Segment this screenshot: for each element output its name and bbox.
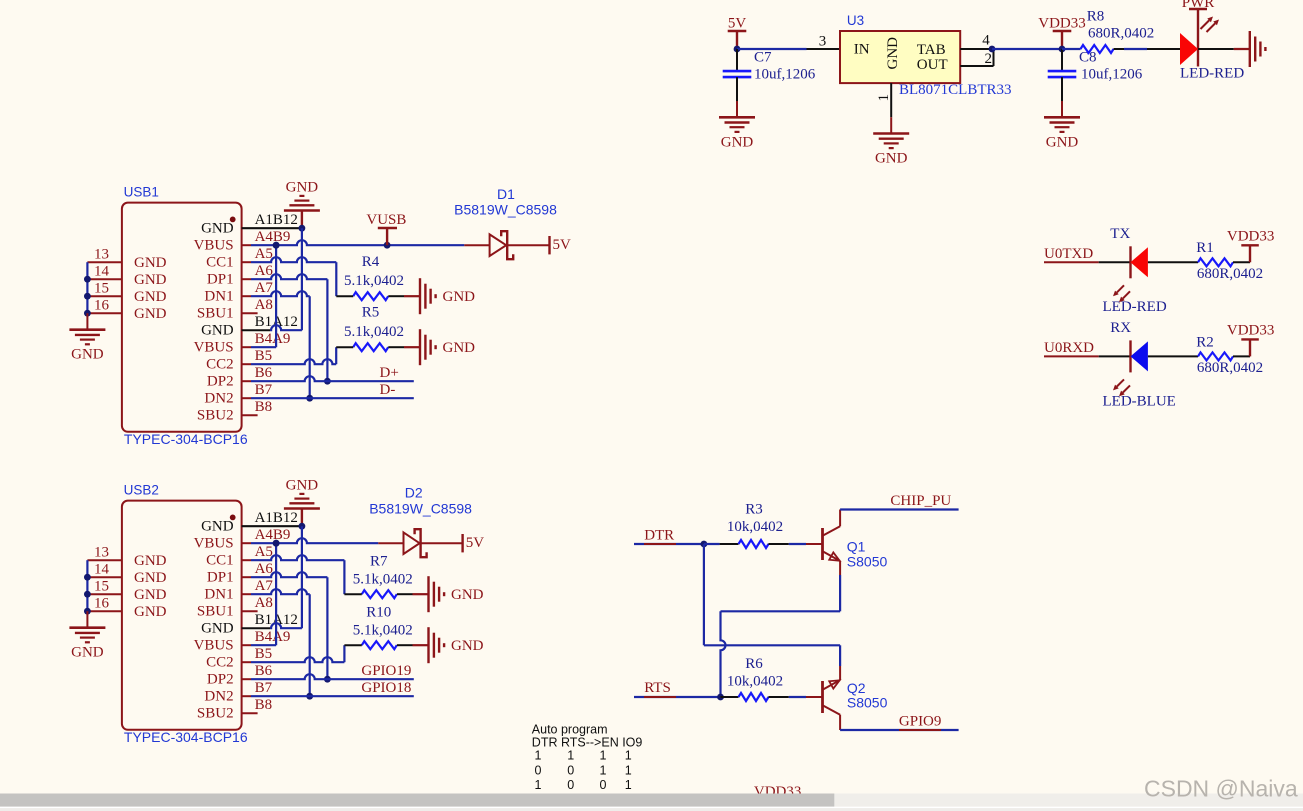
svg-text:10k,0402: 10k,0402 (727, 673, 783, 689)
svg-text:IN: IN (854, 41, 870, 57)
svg-text:A8: A8 (255, 595, 273, 611)
svg-text:Q1: Q1 (847, 539, 866, 555)
svg-text:GND: GND (286, 478, 319, 494)
svg-text:1: 1 (600, 749, 607, 763)
svg-text:GND: GND (451, 638, 484, 654)
svg-text:1: 1 (625, 764, 632, 778)
svg-text:GND: GND (721, 134, 754, 150)
svg-text:1: 1 (876, 94, 892, 102)
svg-text:5V: 5V (728, 16, 747, 32)
svg-text:GND: GND (201, 221, 234, 237)
svg-text:LED-RED: LED-RED (1103, 299, 1167, 315)
svg-text:B4A9: B4A9 (255, 331, 291, 347)
svg-text:A1B12: A1B12 (255, 510, 298, 526)
svg-text:B7: B7 (255, 382, 273, 398)
svg-text:Auto program: Auto program (532, 722, 608, 736)
svg-text:0: 0 (567, 764, 574, 778)
svg-text:DP2: DP2 (207, 672, 234, 688)
svg-text:1: 1 (625, 778, 632, 792)
svg-text:10uf,1206: 10uf,1206 (754, 67, 816, 83)
svg-text:B4A9: B4A9 (255, 629, 291, 645)
svg-text:A5: A5 (255, 544, 273, 560)
svg-text:GND: GND (451, 587, 484, 603)
svg-text:GND: GND (134, 587, 167, 603)
svg-text:0: 0 (600, 778, 607, 792)
svg-text:B8: B8 (255, 399, 273, 415)
svg-text:D1: D1 (497, 186, 515, 202)
svg-text:680R,0402: 680R,0402 (1197, 360, 1263, 376)
svg-text:SBU1: SBU1 (197, 604, 234, 620)
svg-text:15: 15 (94, 579, 109, 595)
svg-text:A8: A8 (255, 297, 273, 313)
svg-text:SBU1: SBU1 (197, 306, 234, 322)
svg-text:DTR: DTR (644, 527, 674, 543)
svg-text:GND: GND (134, 289, 167, 305)
svg-text:GPIO9: GPIO9 (899, 713, 942, 729)
svg-text:GND: GND (443, 340, 476, 356)
svg-text:U0RXD: U0RXD (1044, 340, 1094, 356)
svg-text:B6: B6 (255, 663, 273, 679)
svg-text:A1B12: A1B12 (255, 212, 298, 228)
svg-text:DN1: DN1 (204, 289, 233, 305)
svg-text:5.1k,0402: 5.1k,0402 (344, 273, 404, 289)
svg-text:B5819W_C8598: B5819W_C8598 (454, 202, 557, 218)
svg-text:R3: R3 (745, 502, 763, 518)
svg-text:LED-BLUE: LED-BLUE (1103, 393, 1176, 409)
svg-text:SBU2: SBU2 (197, 706, 234, 722)
svg-text:PWR: PWR (1182, 0, 1215, 11)
svg-text:R7: R7 (370, 554, 388, 570)
svg-text:DP1: DP1 (207, 570, 234, 586)
svg-text:16: 16 (94, 298, 110, 314)
svg-text:BL8071CLBTR33: BL8071CLBTR33 (899, 82, 1012, 98)
svg-text:GND: GND (134, 306, 167, 322)
svg-text:RX: RX (1110, 320, 1131, 336)
svg-text:B7: B7 (255, 680, 273, 696)
svg-text:1: 1 (567, 749, 574, 763)
svg-text:USB1: USB1 (124, 185, 159, 200)
svg-text:A4B9: A4B9 (255, 527, 291, 543)
svg-text:2: 2 (985, 51, 993, 67)
svg-text:10k,0402: 10k,0402 (727, 519, 783, 535)
svg-text:1: 1 (625, 749, 632, 763)
svg-text:B6: B6 (255, 365, 273, 381)
svg-text:DTR RTS-->EN IO9: DTR RTS-->EN IO9 (532, 736, 643, 750)
svg-text:5.1k,0402: 5.1k,0402 (344, 324, 404, 340)
svg-text:OUT: OUT (917, 57, 948, 73)
svg-text:16: 16 (94, 596, 110, 612)
svg-text:14: 14 (94, 264, 110, 280)
svg-text:CC1: CC1 (206, 255, 234, 271)
svg-text:B5819W_C8598: B5819W_C8598 (369, 500, 472, 516)
svg-text:VBUS: VBUS (194, 340, 234, 356)
svg-text:CC2: CC2 (206, 655, 234, 671)
svg-text:C7: C7 (754, 49, 772, 65)
svg-text:13: 13 (94, 247, 109, 263)
svg-text:GND: GND (885, 37, 901, 70)
svg-text:R2: R2 (1196, 334, 1214, 350)
svg-text:SBU2: SBU2 (197, 408, 234, 424)
svg-text:680R,0402: 680R,0402 (1197, 266, 1263, 282)
svg-text:GND: GND (1046, 134, 1079, 150)
svg-text:5.1k,0402: 5.1k,0402 (353, 572, 413, 588)
svg-text:GND: GND (201, 621, 234, 637)
svg-text:S8050: S8050 (847, 694, 888, 710)
svg-text:VBUS: VBUS (194, 238, 234, 254)
svg-text:5V: 5V (553, 237, 572, 253)
svg-text:GND: GND (875, 151, 908, 167)
svg-text:GND: GND (201, 323, 234, 339)
svg-text:0: 0 (535, 764, 542, 778)
svg-text:680R,0402: 680R,0402 (1088, 26, 1154, 42)
svg-text:DN2: DN2 (204, 391, 233, 407)
svg-text:VBUS: VBUS (194, 536, 234, 552)
svg-text:14: 14 (94, 562, 110, 578)
svg-text:S8050: S8050 (847, 554, 888, 570)
svg-text:R6: R6 (745, 656, 763, 672)
svg-text:DN2: DN2 (204, 689, 233, 705)
svg-text:D2: D2 (405, 485, 423, 501)
svg-text:3: 3 (819, 34, 827, 50)
svg-text:5V: 5V (466, 535, 485, 551)
svg-text:A5: A5 (255, 246, 273, 262)
svg-text:10uf,1206: 10uf,1206 (1081, 67, 1143, 83)
svg-text:R5: R5 (362, 305, 380, 321)
svg-text:GND: GND (134, 272, 167, 288)
svg-text:USB2: USB2 (124, 483, 159, 498)
svg-text:CHIP_PU: CHIP_PU (890, 493, 951, 509)
svg-text:R8: R8 (1087, 8, 1105, 24)
svg-text:0: 0 (567, 778, 574, 792)
svg-text:DN1: DN1 (204, 587, 233, 603)
svg-text:LED-RED: LED-RED (1180, 66, 1244, 82)
svg-text:TYPEC-304-BCP16: TYPEC-304-BCP16 (124, 431, 248, 447)
svg-text:U3: U3 (847, 13, 864, 28)
svg-text:D+: D+ (380, 365, 399, 381)
svg-text:TAB: TAB (917, 42, 946, 58)
svg-text:1: 1 (535, 749, 542, 763)
svg-text:B5: B5 (255, 348, 273, 364)
svg-text:B8: B8 (255, 697, 273, 713)
svg-text:DP1: DP1 (207, 272, 234, 288)
svg-text:B5: B5 (255, 646, 273, 662)
svg-text:15: 15 (94, 281, 109, 297)
svg-text:CSDN @Naiva: CSDN @Naiva (1144, 776, 1298, 802)
svg-text:GND: GND (71, 645, 104, 661)
svg-text:GND: GND (71, 347, 104, 363)
svg-text:CC2: CC2 (206, 357, 234, 373)
svg-text:VBUS: VBUS (194, 638, 234, 654)
svg-text:D-: D- (380, 382, 396, 398)
svg-text:R10: R10 (366, 605, 391, 621)
svg-text:1: 1 (535, 778, 542, 792)
svg-text:RTS: RTS (644, 680, 671, 696)
svg-text:GND: GND (443, 289, 476, 305)
svg-text:GND: GND (286, 180, 319, 196)
svg-text:CC1: CC1 (206, 553, 234, 569)
svg-text:GND: GND (134, 255, 167, 271)
svg-text:GPIO18: GPIO18 (361, 680, 411, 696)
svg-text:VUSB: VUSB (366, 212, 406, 228)
svg-text:VDD33: VDD33 (1227, 322, 1275, 338)
svg-text:GND: GND (134, 570, 167, 586)
svg-text:4: 4 (982, 33, 990, 49)
svg-text:DP2: DP2 (207, 374, 234, 390)
svg-text:1: 1 (600, 764, 607, 778)
svg-text:R1: R1 (1196, 240, 1214, 256)
svg-text:GND: GND (134, 553, 167, 569)
svg-text:TX: TX (1110, 226, 1130, 242)
svg-text:TYPEC-304-BCP16: TYPEC-304-BCP16 (124, 729, 248, 745)
svg-text:GPIO19: GPIO19 (361, 663, 411, 679)
svg-text:U0TXD: U0TXD (1044, 246, 1093, 262)
svg-text:GND: GND (134, 604, 167, 620)
svg-text:13: 13 (94, 545, 109, 561)
svg-text:VDD33: VDD33 (1227, 228, 1275, 244)
svg-text:VDD33: VDD33 (1038, 16, 1086, 32)
svg-text:A4B9: A4B9 (255, 229, 291, 245)
svg-text:5.1k,0402: 5.1k,0402 (353, 623, 413, 639)
svg-text:R4: R4 (362, 254, 380, 270)
svg-text:GND: GND (201, 519, 234, 535)
